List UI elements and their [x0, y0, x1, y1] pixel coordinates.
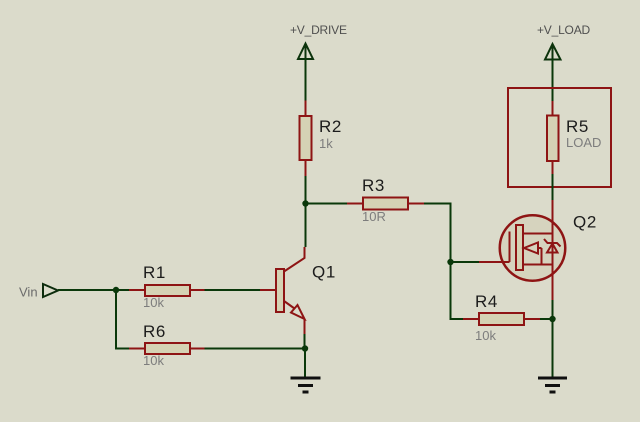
- wire node E to ground: [304, 349, 306, 378]
- svg-text:R4: R4: [475, 292, 498, 311]
- Q1 emitter arrow: [291, 305, 305, 319]
- svg-text:10k: 10k: [475, 328, 496, 343]
- mosfet Q2: [479, 200, 597, 300]
- svg-text:+V_LOAD: +V_LOAD: [537, 23, 590, 37]
- junction node A: [302, 200, 308, 206]
- svg-text:Q2: Q2: [573, 213, 597, 232]
- wire V_DRIVE to R2: [305, 59, 307, 101]
- Q2 drain-source vertical pin: [552, 200, 554, 300]
- junction node E: [302, 345, 308, 351]
- wire R6 to node E: [205, 348, 306, 350]
- svg-text:10k: 10k: [143, 295, 164, 310]
- Q1 base bar: [276, 269, 284, 312]
- svg-text:10R: 10R: [362, 209, 386, 224]
- wire R4 to node C: [540, 318, 553, 320]
- wire R3 to node B: [424, 204, 451, 263]
- transistor Q1: [260, 247, 336, 334]
- svg-text:Q1: Q1: [312, 263, 336, 282]
- wire node A to R3: [306, 203, 348, 205]
- Q1 emitter pin: [304, 319, 306, 334]
- Q2 gate electrode: [509, 232, 511, 263]
- wire Vin to node D: [58, 289, 116, 291]
- wire R1 to Q1 base: [205, 289, 261, 291]
- svg-text:+V_DRIVE: +V_DRIVE: [290, 23, 347, 37]
- svg-text:R5: R5: [566, 117, 589, 136]
- terminal Vin: [43, 284, 58, 297]
- wire Q2 source to node C: [552, 300, 554, 319]
- Q2 source branch: [523, 264, 553, 266]
- wire node B down to R4: [451, 262, 464, 319]
- svg-text:R3: R3: [362, 176, 385, 195]
- Q1 base pin: [260, 289, 276, 291]
- wire node D to R1: [116, 289, 129, 291]
- Q2 body diode anode triangle: [547, 244, 558, 253]
- wire node A to Q1 collector: [305, 204, 307, 248]
- resistor R1: [129, 263, 205, 310]
- wire V_LOAD to R5: [552, 60, 554, 102]
- Q2 drain branch: [523, 233, 553, 235]
- Q2 channel bar: [516, 225, 523, 270]
- power symbol +V_DRIVE: [298, 44, 313, 60]
- junction node D: [113, 287, 119, 293]
- Q2 gate pin: [479, 261, 510, 263]
- svg-text:LOAD: LOAD: [566, 135, 601, 150]
- svg-text:R1: R1: [143, 263, 166, 282]
- wire R2 to node A: [305, 176, 307, 204]
- Q2 body diode cathode bar: [544, 239, 561, 247]
- wire node C to ground: [552, 319, 554, 377]
- wire node D down to R6: [116, 290, 129, 349]
- junction node B: [447, 259, 453, 265]
- load box around R5: [508, 88, 611, 187]
- ground right: [538, 378, 567, 392]
- svg-text:1k: 1k: [319, 136, 333, 151]
- svg-text:Vin: Vin: [19, 285, 38, 300]
- wire node B to Q2 gate: [451, 261, 480, 263]
- resistor R2: [300, 101, 342, 177]
- resistor R5: [547, 101, 601, 174]
- svg-text:R6: R6: [143, 322, 166, 341]
- wire Q1 emitter to node E: [304, 334, 306, 349]
- Q2 substrate arrow: [524, 243, 538, 254]
- resistor R3: [347, 176, 424, 224]
- junction node C: [549, 316, 555, 322]
- resistor R6: [129, 322, 205, 368]
- ground left: [291, 378, 321, 392]
- Q1 emitter: [284, 301, 295, 309]
- power symbol +V_LOAD: [545, 44, 561, 60]
- wire R5 to Q2 drain: [552, 174, 554, 200]
- svg-text:10k: 10k: [143, 353, 164, 368]
- Q1 collector: [284, 247, 305, 272]
- resistor R4: [463, 292, 540, 343]
- svg-text:R2: R2: [319, 117, 342, 136]
